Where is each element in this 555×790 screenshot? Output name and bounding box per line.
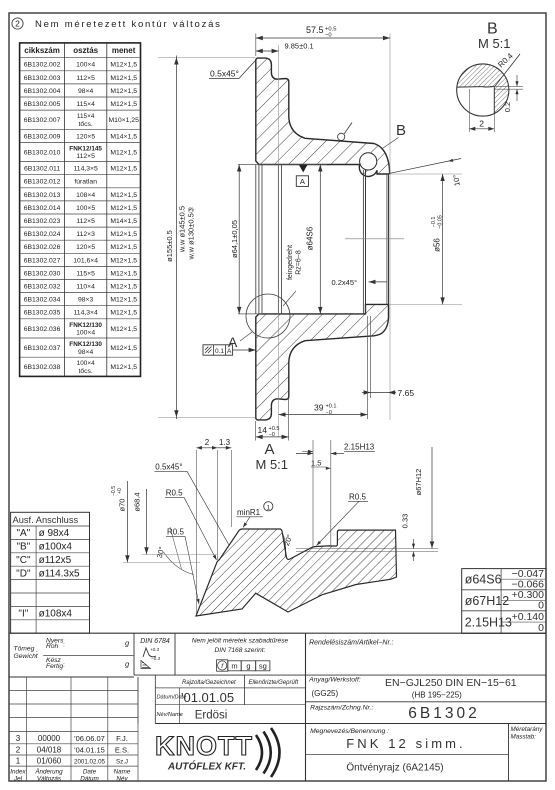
section A-A body	[196, 529, 397, 616]
svg-text:tőcs.: tőcs.	[78, 121, 92, 128]
svg-text:'01.01.05: '01.01.05	[181, 690, 234, 705]
svg-text:2: 2	[16, 746, 21, 755]
svg-text:EN−GJL250 DIN EN−15−61: EN−GJL250 DIN EN−15−61	[385, 677, 517, 689]
svg-text:g: g	[246, 662, 250, 671]
svg-text:M14×1,5: M14×1,5	[110, 218, 137, 225]
svg-text:6B1302.013: 6B1302.013	[24, 192, 61, 199]
svg-text:Öntvényrajz (6A2145): Öntvényrajz (6A2145)	[346, 762, 443, 774]
svg-text:A: A	[264, 441, 274, 458]
svg-text:114,3×5: 114,3×5	[74, 166, 98, 173]
svg-text:14: 14	[258, 425, 268, 435]
svg-text:112×5: 112×5	[76, 153, 95, 160]
dim 2 (section)	[196, 447, 217, 449]
svg-text:Roh: Roh	[46, 643, 59, 650]
svg-text:1: 1	[266, 504, 270, 511]
dim 2 / 1.3 extension lines	[195, 450, 197, 614]
svg-text:M12×1,5: M12×1,5	[110, 88, 137, 95]
svg-text:2: 2	[15, 19, 20, 29]
rajzolta row	[134, 674, 306, 676]
svg-text:39: 39	[314, 403, 324, 413]
dim ø67H12	[431, 447, 433, 548]
svg-text:1: 1	[16, 757, 21, 766]
svg-text:6B1302.002: 6B1302.002	[24, 62, 61, 69]
datum A flag	[299, 165, 308, 173]
revision table	[26, 677, 28, 781]
svg-text:−0.3: −0.3	[151, 656, 161, 661]
svg-text:1.5: 1.5	[311, 459, 321, 468]
svg-text:R0.5: R0.5	[349, 493, 366, 502]
svg-text:Gewicht: Gewicht	[14, 653, 39, 660]
dim 0.2	[490, 85, 523, 87]
svg-text:M10×1,25: M10×1,25	[108, 117, 139, 124]
svg-text:Jel: Jel	[13, 775, 23, 782]
svg-text:Ausf. Anschluss: Ausf. Anschluss	[13, 515, 79, 525]
svg-text:2: 2	[479, 119, 484, 129]
main view: lower half section	[256, 304, 389, 420]
svg-text:2.15H13: 2.15H13	[344, 443, 375, 452]
svg-text:115×4: 115×4	[76, 101, 95, 108]
svg-text:M12×1,5: M12×1,5	[110, 345, 137, 352]
bore step lines inside flange	[255, 165, 257, 314]
svg-text:112×3: 112×3	[76, 231, 95, 238]
svg-text:Fertig: Fertig	[46, 663, 63, 670]
svg-text:+0.1: +0.1	[326, 404, 337, 410]
svg-text:Änderung: Änderung	[34, 768, 63, 776]
svg-text:0: 0	[538, 622, 544, 634]
variants table	[20, 43, 141, 377]
nev row	[155, 723, 305, 725]
svg-text:fúratlan: fúratlan	[74, 179, 97, 186]
dim 39	[367, 316, 369, 419]
svg-text:112×5: 112×5	[76, 75, 95, 82]
svg-text:FNK12/130: FNK12/130	[69, 322, 102, 329]
tömeg cell	[43, 654, 134, 656]
svg-text:M12×1,5: M12×1,5	[110, 283, 137, 290]
svg-text:R0.5: R0.5	[166, 489, 183, 498]
svg-text:2: 2	[205, 438, 210, 447]
svg-text:0.33: 0.33	[400, 514, 409, 529]
tolerance table	[462, 569, 546, 634]
30deg angle arc	[164, 552, 194, 575]
svg-text:120×5: 120×5	[76, 133, 95, 140]
datum row	[179, 688, 181, 724]
svg-text:98×3: 98×3	[78, 297, 94, 304]
svg-text:6B1302.024: 6B1302.024	[24, 231, 61, 238]
svg-text:1.3: 1.3	[219, 438, 231, 447]
svg-text:6B1302.004: 6B1302.004	[24, 88, 61, 95]
svg-text:M12×1,5: M12×1,5	[110, 166, 137, 173]
svg-text:FNK 12 simm.: FNK 12 simm.	[346, 736, 466, 751]
svg-text:ø64,1±0,05: ø64,1±0,05	[230, 220, 239, 258]
dim line ø155	[158, 56, 256, 58]
detail B circle	[457, 64, 509, 114]
dim ø64S6	[319, 165, 321, 314]
svg-text:−0.05: −0.05	[438, 215, 444, 229]
groove slot walls (2.15H13)	[312, 440, 314, 547]
svg-text:6B1302.034: 6B1302.034	[24, 297, 61, 304]
axis centerline	[345, 238, 404, 240]
svg-text:120×5: 120×5	[76, 244, 95, 251]
svg-text:Név: Név	[116, 775, 128, 782]
svg-text:6B1302.014: 6B1302.014	[24, 205, 61, 212]
svg-text:B: B	[396, 122, 406, 139]
svg-text:Tömeg: Tömeg	[14, 646, 35, 653]
svg-text:sg: sg	[259, 662, 267, 671]
svg-text:6B1302.026: 6B1302.026	[24, 244, 61, 251]
svg-text:0.5x45°: 0.5x45°	[155, 463, 182, 472]
svg-text:6B1302.003: 6B1302.003	[24, 75, 61, 82]
dim 7.65	[370, 316, 372, 398]
svg-text:01/060: 01/060	[37, 757, 62, 766]
svg-text:KNOTT: KNOTT	[155, 731, 253, 761]
svg-text:0.5x45°: 0.5x45°	[210, 69, 239, 79]
svg-text:Nem jelölt méretek szabadtű: Nem jelölt méretek szabadtűrése	[192, 638, 289, 645]
dim 14	[255, 421, 257, 441]
svg-text:−0: −0	[325, 33, 332, 39]
svg-text:6B1302.030: 6B1302.030	[24, 270, 61, 277]
svg-text:100×4: 100×4	[76, 62, 95, 69]
svg-text:Név/Name: Név/Name	[157, 712, 183, 718]
svg-text:7.65: 7.65	[398, 388, 415, 398]
svg-text::: :	[36, 650, 38, 657]
svg-text:M14×1,5: M14×1,5	[110, 133, 137, 140]
svg-text:0: 0	[538, 599, 544, 611]
svg-text:Rz=6−8: Rz=6−8	[296, 250, 303, 275]
svg-text:ø56: ø56	[433, 238, 442, 252]
svg-text:Ellenőrizte/Geprüft: Ellenőrizte/Geprüft	[249, 680, 299, 686]
svg-text:2001.02.05: 2001.02.05	[74, 759, 106, 766]
svg-text:"B": "B"	[16, 542, 30, 553]
svg-text:ø64S6: ø64S6	[306, 226, 315, 250]
svg-text:ø108x4: ø108x4	[39, 609, 73, 620]
taper line + 10deg	[390, 159, 461, 174]
svg-text:B: B	[487, 21, 498, 38]
svg-text:"I": "I"	[18, 609, 28, 620]
svg-text:6B1302.011: 6B1302.011	[24, 166, 60, 173]
svg-text:ø67H12: ø67H12	[465, 594, 510, 608]
svg-text:M 5:1: M 5:1	[256, 457, 289, 472]
svg-text:2.15H13: 2.15H13	[465, 616, 512, 630]
svg-text:6B1302.038: 6B1302.038	[24, 364, 61, 371]
svg-text:110×4: 110×4	[76, 283, 95, 290]
svg-text:Erdösi: Erdösi	[195, 710, 228, 722]
svg-text:6B1302.037: 6B1302.037	[24, 345, 61, 352]
svg-text:ø 98x4: ø 98x4	[39, 528, 70, 539]
svg-text:00000: 00000	[38, 734, 61, 743]
svg-text:0.2x45°: 0.2x45°	[332, 278, 358, 287]
0.33 lines	[296, 548, 438, 550]
svg-text:M12×1,5: M12×1,5	[110, 297, 137, 304]
svg-text:FNK12/130: FNK12/130	[69, 341, 102, 348]
svg-text:FNK12/145: FNK12/145	[69, 145, 102, 152]
svg-text:112×5: 112×5	[76, 218, 95, 225]
svg-text:100×4: 100×4	[76, 330, 95, 337]
svg-text:ø100x4: ø100x4	[39, 542, 73, 553]
svg-text:cikkszám: cikkszám	[24, 46, 60, 55]
svg-text:Rendelésiszám/Artikel−Nr.:: Rendelésiszám/Artikel−Nr.:	[309, 640, 393, 647]
dim 9.85	[278, 45, 280, 437]
svg-text:ø112x5: ø112x5	[39, 555, 72, 566]
svg-text:3: 3	[16, 734, 21, 743]
dim ø64.1	[238, 164, 327, 166]
svg-text:Sz.J: Sz.J	[116, 759, 128, 766]
svg-text:menet: menet	[112, 46, 136, 55]
svg-text:A: A	[227, 348, 232, 355]
svg-text:M12×1,5: M12×1,5	[110, 149, 137, 156]
svg-text:A: A	[300, 177, 305, 186]
svg-text:"D": "D"	[16, 568, 31, 579]
svg-text:osztás: osztás	[73, 46, 98, 55]
svg-text:M12×1,5: M12×1,5	[110, 364, 137, 371]
svg-text:6B1302.010: 6B1302.010	[24, 149, 61, 156]
svg-text:ø155±0.5: ø155±0.5	[165, 230, 174, 262]
dim ø70	[123, 562, 200, 564]
svg-text:M12×1,5: M12×1,5	[110, 205, 137, 212]
svg-text:100×5: 100×5	[76, 205, 95, 212]
dim ø56	[390, 173, 462, 175]
svg-text:(HB 195−225): (HB 195−225)	[412, 691, 462, 700]
svg-text:0.1: 0.1	[215, 348, 224, 355]
svg-text:Anyag/Werkstoff:: Anyag/Werkstoff:	[308, 677, 361, 684]
main view: upper half section (flange+web+hub wall)	[256, 58, 390, 176]
hub end face (inner edge)	[386, 174, 388, 304]
svg-text::: :	[63, 662, 65, 669]
svg-text:E.S.: E.S.	[115, 746, 129, 755]
svg-text:M12×1,5: M12×1,5	[110, 231, 137, 238]
svg-text:Megnevezés/Benennung :: Megnevezés/Benennung :	[310, 728, 389, 735]
svg-text:M12×1,5: M12×1,5	[110, 244, 137, 251]
svg-text:101,6×4: 101,6×4	[73, 257, 98, 264]
seal groove circle	[360, 153, 377, 170]
svg-text:100×4: 100×4	[77, 360, 95, 367]
svg-text:minR1: minR1	[237, 508, 261, 517]
svg-text:6B1302.036: 6B1302.036	[24, 326, 61, 333]
svg-text:(GG25): (GG25)	[312, 689, 339, 698]
svg-text:57.5: 57.5	[306, 25, 324, 35]
dim ø68.4	[142, 554, 218, 556]
svg-text:108×4: 108×4	[76, 192, 95, 199]
svg-text:ø68.4: ø68.4	[133, 492, 142, 511]
svg-text:Rajzolta/Gezeichnet: Rajzolta/Gezeichnet	[182, 680, 236, 686]
svg-text:Rajzszám/Zchng.Nr.:: Rajzszám/Zchng.Nr.:	[310, 705, 373, 712]
svg-text:Masstab:: Masstab:	[511, 734, 537, 741]
Ausf Anschluss table	[11, 512, 90, 633]
svg-text:−0: −0	[326, 410, 332, 416]
detail B inner edges	[457, 86, 482, 89]
svg-text:m: m	[231, 662, 237, 671]
svg-text:6B1302.005: 6B1302.005	[24, 101, 61, 108]
svg-text:+0: +0	[117, 488, 123, 494]
dim 2 (detail B)	[468, 89, 470, 132]
svg-text:ø64S6: ø64S6	[465, 573, 502, 587]
svg-text:6B1302: 6B1302	[408, 705, 479, 722]
svg-text:Méretarány: Méretarány	[511, 726, 544, 733]
svg-text:M12×1,5: M12×1,5	[110, 326, 137, 333]
note circled 2	[12, 18, 23, 29]
svg-text:10°: 10°	[451, 174, 461, 186]
svg-text:0.2: 0.2	[503, 102, 512, 112]
svg-text:R0.5: R0.5	[167, 528, 184, 537]
bore end face	[362, 170, 364, 314]
svg-text:w.w ø130±0.5③: w.w ø130±0.5③	[187, 206, 196, 260]
svg-text:6B1302.012: 6B1302.012	[24, 179, 61, 186]
svg-text:Dátum: Dátum	[80, 775, 99, 782]
datum ref frame 0.1 A	[203, 345, 233, 355]
svg-text:"A": "A"	[16, 528, 30, 539]
svg-text:ø114.3x5: ø114.3x5	[39, 568, 80, 579]
svg-text:F.J.: F.J.	[116, 734, 128, 743]
svg-text:DIN 7168 szerint:: DIN 7168 szerint:	[215, 647, 266, 654]
dim 57.5	[255, 34, 257, 57]
svg-text:M12×1,5: M12×1,5	[110, 310, 137, 317]
detail circle A	[246, 294, 290, 338]
svg-text:6B1302.007: 6B1302.007	[24, 117, 61, 124]
svg-text:M12×1,5: M12×1,5	[110, 270, 137, 277]
title block grid	[9, 632, 546, 634]
svg-text:tőcs.: tőcs.	[78, 368, 92, 375]
svg-text:115×4: 115×4	[77, 113, 95, 120]
svg-text:AUTÓFLEX KFT.: AUTÓFLEX KFT.	[167, 760, 246, 773]
surface symbol on hub	[338, 133, 345, 140]
svg-text:6B1302.023: 6B1302.023	[24, 218, 61, 225]
svg-text:w.w ø145±0.5: w.w ø145±0.5	[178, 206, 187, 253]
svg-text:98×4: 98×4	[78, 88, 94, 95]
svg-text:ø70: ø70	[118, 499, 127, 512]
svg-text:04/018: 04/018	[37, 746, 62, 755]
svg-text:M12×1,5: M12×1,5	[110, 62, 137, 69]
svg-text::: :	[63, 642, 65, 649]
svg-text:M 5:1: M 5:1	[478, 36, 511, 51]
svg-text:Változás: Változás	[37, 775, 62, 782]
svg-text:Nem méretezett kontúr változás: Nem méretezett kontúr változás	[35, 19, 222, 30]
svg-text:6B1302.027: 6B1302.027	[24, 257, 61, 264]
svg-text:feingedreht: feingedreht	[287, 245, 294, 280]
svg-text:−0.5: −0.5	[111, 486, 117, 496]
svg-text:6B1302.032: 6B1302.032	[24, 283, 61, 290]
svg-text:'06.06.07: '06.06.07	[74, 734, 105, 743]
svg-text:DIN 6784: DIN 6784	[140, 638, 170, 645]
svg-text:M12×1,5: M12×1,5	[110, 101, 137, 108]
20deg angle arc	[283, 533, 286, 557]
dim 1.3	[218, 447, 232, 449]
svg-text:114,3×4: 114,3×4	[74, 310, 98, 317]
svg-text:6B1302.035: 6B1302.035	[24, 310, 61, 317]
svg-text:ø67H12: ø67H12	[414, 469, 423, 496]
svg-text:"C": "C"	[16, 555, 31, 566]
svg-text:115×5: 115×5	[76, 270, 95, 277]
svg-text:98×4: 98×4	[78, 349, 94, 356]
svg-text:M12×1,5: M12×1,5	[110, 75, 137, 82]
svg-text:M12×1,5: M12×1,5	[110, 192, 137, 199]
svg-text:9.85±0.1: 9.85±0.1	[285, 42, 314, 51]
svg-text:'04.01.15: '04.01.15	[74, 746, 105, 755]
svg-text:6B1302.009: 6B1302.009	[24, 133, 61, 140]
svg-text:−0: −0	[269, 432, 275, 438]
svg-text:+0.3: +0.3	[150, 647, 160, 652]
svg-text:−0.1: −0.1	[431, 217, 437, 228]
svg-text:M12×1,5: M12×1,5	[110, 257, 137, 264]
